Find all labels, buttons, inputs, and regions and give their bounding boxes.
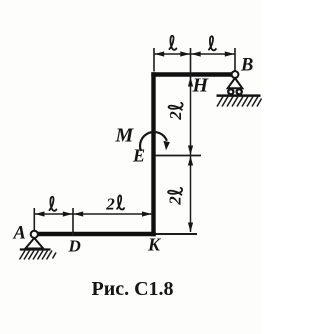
top dimension line	[154, 53, 235, 55]
svg-text:K: K	[147, 235, 162, 255]
support A: pin	[25, 231, 43, 249]
label 2l (bottom seg2)	[105, 194, 124, 213]
svg-text:E: E	[132, 146, 145, 166]
svg-text:A: A	[13, 224, 26, 244]
extension line mid tick at H	[190, 48, 192, 78]
svg-text:H: H	[192, 75, 210, 97]
support B: roller	[228, 71, 243, 94]
label M	[115, 125, 135, 147]
arrow down at K	[188, 223, 193, 233]
arrow left (top seg2)	[191, 51, 201, 56]
arrow right (bottom seg2)	[142, 211, 152, 216]
label 2l (upper, rotated)	[166, 103, 185, 121]
beam K-E-H (vertical member)	[151, 72, 155, 236]
vertical dimension line H to E	[190, 77, 192, 156]
label 2l (lower, rotated)	[165, 188, 184, 206]
extension line at K (right of beam)	[156, 233, 198, 235]
bottom dimension line	[34, 213, 151, 215]
node A label	[13, 224, 26, 244]
node H label	[192, 75, 210, 97]
arrow up at H	[188, 77, 193, 87]
arrow left (bottom seg2)	[74, 211, 84, 216]
hatching at A	[20, 251, 57, 260]
svg-text:2: 2	[165, 196, 184, 206]
extension line tick at A	[33, 208, 35, 231]
beam A-D-K (bottom horizontal member)	[37, 232, 156, 236]
caption: Рис. С1.8	[92, 278, 174, 300]
label l (bottom seg1)	[49, 197, 56, 211]
vertical dimension line E to K	[190, 156, 192, 233]
ground line at A	[20, 248, 51, 250]
svg-text:B: B	[240, 56, 253, 76]
extension line at E	[156, 155, 202, 157]
svg-text:2: 2	[105, 194, 115, 213]
beam H-B (top horizontal member)	[151, 72, 232, 76]
arrow left (bottom seg1)	[35, 211, 45, 216]
node K label	[147, 235, 162, 255]
arrow right (bottom seg1)	[63, 211, 73, 216]
node E label	[132, 146, 145, 166]
label l (top right segment)	[209, 36, 216, 50]
arrow right (top seg2)	[225, 51, 235, 56]
svg-text:M: M	[115, 125, 135, 147]
arrow right (top seg1)	[180, 51, 190, 56]
ground line at B	[217, 94, 261, 97]
arrow down at E (upper)	[188, 146, 193, 156]
arrow left (top seg1)	[155, 51, 165, 56]
svg-text:D: D	[68, 237, 81, 256]
label l (top left segment)	[169, 36, 176, 50]
node B label	[240, 56, 253, 76]
extension line left tick at top-left corner	[153, 48, 155, 72]
moment M arc at E	[140, 132, 170, 151]
hatching at B	[217, 97, 262, 107]
arrow up at E (lower)	[188, 156, 193, 166]
extension line tick at D	[72, 208, 74, 236]
node D label	[68, 237, 81, 256]
svg-text:Рис. С1.8: Рис. С1.8	[92, 278, 174, 300]
svg-text:2: 2	[166, 111, 185, 121]
extension line right tick at B	[234, 48, 236, 71]
